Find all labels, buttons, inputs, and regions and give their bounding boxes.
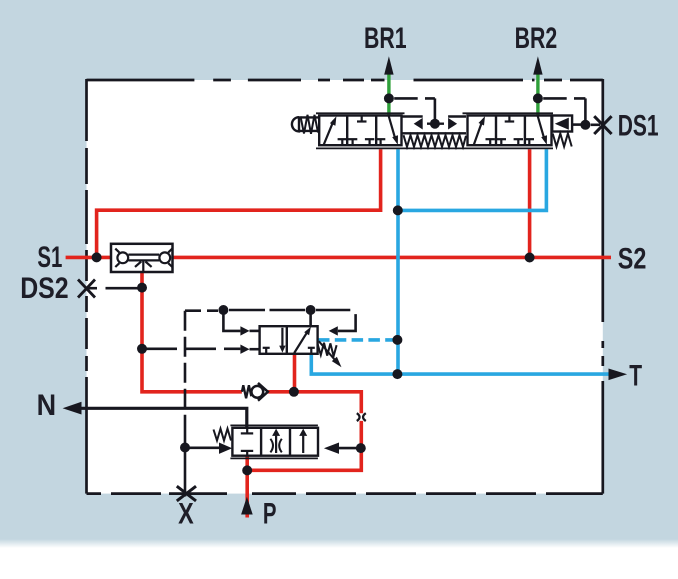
svg-text:X: X bbox=[178, 497, 194, 530]
svg-text:P: P bbox=[263, 498, 277, 531]
svg-text:S2: S2 bbox=[618, 242, 647, 275]
svg-text:N: N bbox=[37, 389, 56, 423]
svg-text:DS2: DS2 bbox=[20, 271, 68, 305]
svg-text:T: T bbox=[629, 360, 642, 392]
svg-text:BR1: BR1 bbox=[364, 20, 407, 55]
svg-text:BR2: BR2 bbox=[515, 20, 558, 55]
svg-text:DS1: DS1 bbox=[618, 110, 659, 142]
svg-text:S1: S1 bbox=[37, 241, 62, 274]
